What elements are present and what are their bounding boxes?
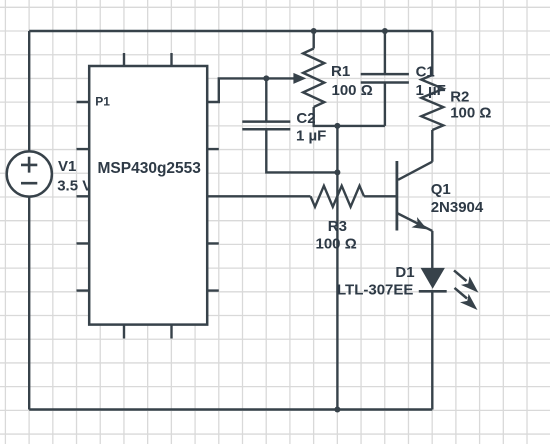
svg-text:C2: C2 [296,110,315,127]
svg-text:R2: R2 [450,88,469,105]
svg-text:R3: R3 [328,218,347,235]
svg-text:100 Ω: 100 Ω [332,82,373,99]
svg-text:1 µF: 1 µF [416,82,446,99]
svg-text:V1: V1 [58,158,76,175]
svg-text:100 Ω: 100 Ω [316,236,357,253]
svg-text:MSP430g2553: MSP430g2553 [98,160,202,177]
svg-text:D1: D1 [395,264,414,281]
svg-text:C1: C1 [416,63,435,80]
svg-text:2N3904: 2N3904 [431,199,484,216]
svg-text:1 µF: 1 µF [296,128,326,145]
svg-text:P1: P1 [95,95,110,109]
svg-text:Q1: Q1 [431,181,451,198]
svg-text:100 Ω: 100 Ω [450,105,491,122]
svg-text:R1: R1 [331,63,350,80]
svg-text:LTL-307EE: LTL-307EE [337,282,413,299]
svg-text:3.5 V: 3.5 V [57,178,92,195]
